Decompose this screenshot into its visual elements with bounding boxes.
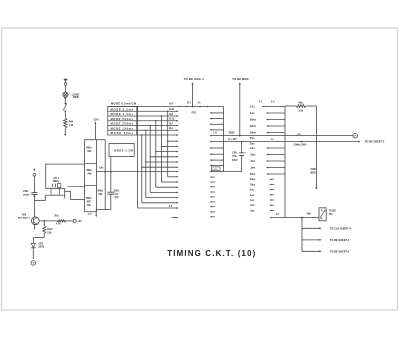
connector P1 bus bbox=[209, 107, 223, 173]
svg-text:C8UL: C8UL bbox=[114, 191, 121, 193]
resistor R60 column bbox=[96, 140, 105, 210]
svg-text:MODE 0.5ms/CM: MODE 0.5ms/CM bbox=[111, 102, 137, 106]
svg-text:2N38F: 2N38F bbox=[23, 195, 30, 197]
svg-text:J-7: J-7 bbox=[259, 100, 263, 103]
svg-text:50us: 50us bbox=[250, 173, 256, 176]
svg-text:2us: 2us bbox=[250, 194, 255, 197]
svg-text:MOD: MOD bbox=[310, 173, 316, 175]
svg-text:XTL1: XTL1 bbox=[53, 178, 59, 180]
svg-text:C8U: C8U bbox=[232, 153, 237, 155]
svg-text:R58x: R58x bbox=[86, 170, 92, 172]
svg-text:TO BE SHEET-4: TO BE SHEET-4 bbox=[330, 250, 350, 253]
wire C4x line bbox=[96, 166, 178, 172]
label MODE 0.5ms/CM bbox=[111, 102, 137, 106]
emitter ground arrow bbox=[34, 224, 36, 230]
svg-text:+9V: +9V bbox=[77, 220, 82, 223]
wire bbox=[65, 186, 85, 199]
wire bbox=[33, 234, 44, 244]
transistor Q1 bbox=[18, 214, 39, 225]
wire J-2 bbox=[270, 213, 320, 218]
connector P2 pin labels bbox=[250, 106, 257, 213]
svg-text:J-4: J-4 bbox=[271, 100, 275, 103]
divider box MODE 2.5M bbox=[109, 144, 134, 157]
svg-text:.2us: .2us bbox=[250, 209, 255, 212]
wire to be sheet-4 a bbox=[302, 239, 350, 242]
svg-text:MODE 500ms: MODE 500ms bbox=[111, 117, 134, 121]
wire bbox=[33, 176, 35, 192]
terminal circle E bbox=[353, 133, 358, 138]
svg-text:RED: RED bbox=[73, 95, 79, 99]
svg-text:5us: 5us bbox=[250, 189, 255, 192]
svg-text:.1ms: .1ms bbox=[250, 167, 256, 170]
label J-4 bbox=[271, 100, 275, 103]
svg-text:R6x: R6x bbox=[307, 213, 312, 215]
svg-text:1ms: 1ms bbox=[250, 147, 255, 150]
svg-text:L-15: L-15 bbox=[212, 169, 217, 171]
svg-text:B-11: B-11 bbox=[169, 109, 175, 111]
wire bbox=[64, 98, 66, 103]
wire to clk sheet-4 bbox=[302, 227, 351, 230]
svg-text:MODE 2.5ms: MODE 2.5ms bbox=[111, 107, 134, 111]
svg-text:TO CLK SHEET-4: TO CLK SHEET-4 bbox=[330, 227, 352, 230]
svg-text:4D3: 4D3 bbox=[22, 214, 27, 217]
label J-7 bbox=[259, 100, 263, 103]
svg-text:R7x2: R7x2 bbox=[47, 229, 53, 231]
svg-text:In +15V: In +15V bbox=[228, 138, 237, 141]
svg-text:.5us: .5us bbox=[250, 204, 255, 207]
svg-text:R5x: R5x bbox=[55, 215, 60, 217]
wire bbox=[64, 111, 66, 118]
capacitor C46 bbox=[23, 190, 37, 217]
output wire +9V bbox=[39, 215, 82, 225]
wire bottom rail bbox=[96, 209, 111, 211]
label L-5 bbox=[213, 132, 217, 134]
svg-text:TIMING C.K.T. (10): TIMING C.K.T. (10) bbox=[167, 249, 256, 258]
svg-text:CRM: CRM bbox=[310, 169, 315, 171]
svg-text:3.3k: 3.3k bbox=[47, 232, 52, 234]
wire bbox=[64, 128, 66, 135]
svg-text:C4x: C4x bbox=[99, 166, 104, 169]
svg-text:10us: 10us bbox=[250, 183, 256, 186]
wire bbox=[94, 126, 96, 140]
svg-text:R59x: R59x bbox=[86, 198, 92, 200]
jack J5x bbox=[319, 208, 336, 221]
power terminal +V bbox=[63, 78, 67, 82]
svg-text:C46x: C46x bbox=[23, 190, 29, 193]
wire 3.5kHz to sheet 2 bbox=[209, 134, 384, 147]
svg-text:50ms: 50ms bbox=[250, 119, 257, 122]
wire branch bbox=[301, 218, 303, 252]
svg-text:5ms: 5ms bbox=[250, 137, 255, 140]
svg-text:FG1: FG1 bbox=[192, 113, 197, 115]
svg-text:B-12: B-12 bbox=[169, 119, 175, 121]
resistor network R62/R58/R59 box bbox=[85, 140, 97, 212]
resistor R6x 2.2k bbox=[285, 102, 316, 112]
diode CR2 1N34 bbox=[31, 243, 44, 248]
svg-text:1.2k: 1.2k bbox=[69, 124, 74, 127]
svg-text:1us: 1us bbox=[250, 199, 255, 202]
connector P2 spare pins bbox=[269, 178, 274, 211]
lamp DS1 LOAD RED bbox=[63, 92, 79, 99]
svg-text:4MHz: 4MHz bbox=[53, 180, 60, 183]
svg-text:EMO: EMO bbox=[229, 131, 235, 134]
label B-2 bbox=[186, 102, 192, 107]
connector P1 spare pins bbox=[210, 176, 215, 217]
supply arrow bbox=[34, 168, 36, 171]
off-page TO BE MOD bbox=[232, 77, 248, 137]
svg-text:TO BE AND-4: TO BE AND-4 bbox=[184, 77, 205, 81]
wire rail bbox=[45, 163, 85, 165]
terminal circle bbox=[31, 261, 36, 266]
svg-text:10V: 10V bbox=[114, 197, 119, 199]
svg-text:MODE 250ms: MODE 250ms bbox=[111, 122, 134, 126]
svg-text:R6x: R6x bbox=[299, 102, 304, 104]
svg-text:0.2s: 0.2s bbox=[250, 106, 255, 109]
mode output lines B-11..B-1 bbox=[137, 109, 179, 136]
resistor R7x2 3.3k bbox=[43, 220, 54, 234]
capacitor C8UL 47x 10V bbox=[107, 157, 120, 210]
switch S1 bbox=[63, 103, 67, 112]
svg-text:MODE 50ms: MODE 50ms bbox=[111, 131, 134, 135]
svg-text:10ms: 10ms bbox=[250, 132, 257, 135]
svg-text:J5x: J5x bbox=[329, 213, 334, 216]
terminal circle bbox=[64, 83, 67, 86]
resistor R64 1.2k bbox=[64, 118, 74, 128]
wire CRM MOD bbox=[310, 106, 317, 189]
wire bbox=[34, 195, 51, 200]
svg-text:3.5kHz 250V: 3.5kHz 250V bbox=[293, 145, 307, 147]
connector P2 bus bbox=[262, 106, 285, 218]
wire rail B-5 bbox=[108, 106, 224, 108]
off-page TO BE AND-4 bbox=[184, 77, 205, 107]
wire bbox=[32, 248, 34, 260]
svg-text:2.2k: 2.2k bbox=[299, 110, 304, 112]
svg-text:.5ms: .5ms bbox=[250, 154, 256, 157]
label B-5 bbox=[169, 104, 173, 106]
cascade wires fan bbox=[137, 106, 179, 209]
wire bbox=[65, 85, 67, 92]
label J-2 bbox=[276, 214, 280, 216]
title TIMING C.K.T. (10) bbox=[167, 249, 256, 258]
supply -12V bbox=[93, 117, 99, 125]
svg-text:MODE 150ms: MODE 150ms bbox=[111, 126, 134, 130]
svg-text:MODE 2.5M: MODE 2.5M bbox=[114, 150, 133, 153]
wire EMO bbox=[209, 131, 352, 141]
svg-text:4.7k: 4.7k bbox=[56, 223, 61, 226]
svg-text:TO BE: TO BE bbox=[329, 210, 337, 213]
svg-text:20us: 20us bbox=[250, 178, 256, 181]
svg-text:0.1s: 0.1s bbox=[250, 112, 255, 115]
label J-1 bbox=[197, 102, 201, 107]
svg-text:-12V: -12V bbox=[93, 117, 99, 121]
svg-text:R62x: R62x bbox=[86, 148, 92, 150]
svg-text:20ms: 20ms bbox=[250, 125, 257, 128]
svg-text:CR2: CR2 bbox=[38, 243, 43, 245]
svg-text:.2ms: .2ms bbox=[250, 160, 256, 163]
terminal circle bbox=[33, 173, 36, 176]
label J-5 bbox=[271, 139, 275, 141]
svg-text:SP2: SP2 bbox=[87, 202, 92, 204]
wire bbox=[46, 164, 51, 188]
svg-text:TO BE SHEET-4: TO BE SHEET-4 bbox=[330, 239, 350, 242]
svg-text:TO BE SHEET-2: TO BE SHEET-2 bbox=[365, 140, 385, 144]
ground arrow bbox=[88, 210, 98, 218]
svg-text:MODE 1.5ms: MODE 1.5ms bbox=[111, 112, 134, 116]
svg-text:R60x: R60x bbox=[98, 191, 104, 193]
svg-text:1N34: 1N34 bbox=[38, 246, 44, 249]
svg-text:2ms: 2ms bbox=[250, 143, 255, 146]
crystal XTL1 4MHz bbox=[51, 178, 65, 198]
svg-text:MOT BD57-1: MOT BD57-1 bbox=[18, 217, 31, 219]
svg-text:0.5u: 0.5u bbox=[232, 156, 237, 158]
label L-15 box bbox=[211, 167, 220, 171]
svg-text:TO BE MOD: TO BE MOD bbox=[232, 77, 248, 81]
stub arrow bbox=[172, 217, 179, 219]
capacitor C8U 0.5u 100V bbox=[224, 141, 247, 172]
label FG1 bbox=[179, 106, 208, 115]
wire to be sheet-4 b bbox=[302, 250, 350, 253]
svg-text:100V: 100V bbox=[232, 160, 238, 162]
mode select box stack bbox=[108, 107, 137, 136]
